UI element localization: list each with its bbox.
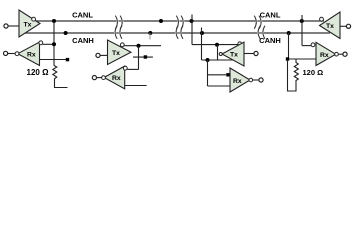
bubble Rx1 upper input [39, 41, 43, 45]
svg-text:120 Ω: 120 Ω [303, 68, 324, 77]
wire CANH bus segment 2 [121, 32, 175, 34]
bubble Tx3 upper output [238, 42, 242, 46]
wire Tx4 input [340, 25, 346, 27]
wire vertical CANL node3 [191, 15, 193, 45]
junction dot CANH node1 [64, 31, 68, 35]
junction dot on Tx3 lower wire [206, 58, 210, 62]
wire vertical to Rx3 inputs [207, 60, 209, 86]
wire CANH bus segment 1 [25, 32, 114, 34]
junction dot CANL node2 [159, 19, 163, 23]
terminal Rx4 output [343, 52, 347, 56]
junction dot Rx1 upper input on vertical [52, 42, 56, 46]
wire Rx2 lower input [125, 85, 147, 87]
svg-text:Tx: Tx [326, 23, 334, 30]
receiver Rx4 [316, 42, 336, 65]
wire Tx3 upper output [192, 44, 238, 46]
square stub node1 [66, 58, 69, 61]
wire vertical CANH node3 [201, 28, 203, 61]
square stub node3 [226, 73, 229, 76]
resistor R2 120 ohm zigzag [294, 59, 298, 87]
svg-text:120 Ω: 120 Ω [27, 68, 50, 77]
terminal Tx1 input [4, 24, 8, 28]
wire CANL between break arcs 1 [118, 20, 121, 22]
wire Rx2 output [97, 77, 102, 79]
wire Rx1 upper input [43, 43, 54, 45]
square stub node2 [144, 55, 147, 58]
svg-text:CANL: CANL [72, 10, 93, 19]
svg-text:Rx: Rx [233, 78, 242, 85]
wire CANH bus segment 3 [182, 32, 257, 34]
wire CANH between break arcs 1 [116, 32, 119, 34]
terminal Tx2 input [96, 53, 100, 57]
terminal Rx1 output [4, 51, 8, 55]
transmitter Tx2 [108, 40, 132, 65]
junction dot CANL node1 [52, 19, 56, 23]
bubble Rx2 upper input [123, 66, 127, 70]
terminal Rx2 output [92, 76, 96, 80]
terminal Rx3 output [259, 78, 263, 82]
terminal Tx3 input [254, 51, 258, 55]
receiver Rx1 [18, 42, 40, 66]
wire Tx2 upper output [124, 45, 161, 47]
svg-text:Rx: Rx [27, 51, 36, 58]
wire CANL between break arcs 3 [257, 20, 260, 22]
square stub node4 [286, 57, 289, 60]
break marks CANH left [115, 26, 117, 39]
wire Rx1 output [8, 53, 16, 55]
svg-text:CANH: CANH [259, 36, 281, 45]
break marks CANL left [115, 16, 265, 39]
break marks CANH middle [176, 26, 178, 39]
break marks CANH right [258, 26, 260, 39]
wire CANL bus segment 4 [262, 20, 324, 22]
svg-text:Rx: Rx [112, 75, 121, 82]
bubble Rx1 tip [15, 52, 19, 56]
svg-text:Rx: Rx [320, 52, 329, 59]
svg-text:CANL: CANL [260, 10, 281, 19]
wire Tx3 lower output [202, 59, 234, 61]
svg-text:CANH: CANH [72, 36, 94, 45]
wire Rx3 output [253, 79, 259, 81]
junction dot CANL node3 [190, 19, 194, 23]
transmitter Tx1 [19, 10, 40, 37]
bubble Tx1 upper output [32, 17, 36, 21]
bubble Rx2 tip [102, 76, 106, 80]
wire CANH between break arcs 3 [259, 32, 262, 34]
bubble Rx4 upper input [311, 43, 315, 47]
junction dot CANH node3 [200, 31, 204, 35]
junction dot CANH node2 [148, 31, 152, 35]
wire vertical CANL to resistor R1 [53, 21, 55, 66]
wire Rx4 lower input [289, 58, 316, 60]
wire Tx3 input [244, 53, 254, 55]
resistor R1 120 ohm zigzag [53, 66, 68, 88]
wire CANL between break arcs 2 [179, 20, 182, 22]
wire vertical node2 [138, 46, 140, 70]
wire CANH between break arcs 2 [177, 32, 180, 34]
receiver Rx3 [230, 68, 250, 92]
wire Rx1 lower input [40, 59, 67, 61]
wire Tx1 input [8, 25, 19, 27]
wire Rx4 upper input [302, 45, 311, 47]
wire CANL bus segment 1 [25, 21, 330, 33]
wire Rx2 upper input [127, 68, 138, 70]
svg-text:Tx: Tx [112, 50, 120, 57]
break marks CANL middle [176, 16, 178, 29]
junction dot on Tx2 output wire [137, 44, 141, 48]
wire CANH bus segment 4 [264, 32, 330, 34]
bubble Tx2 upper output [120, 43, 124, 47]
wire Rx4 output [338, 53, 342, 55]
wire Rx3 lower input [208, 85, 231, 87]
wire resistor R2 bottom loop [288, 61, 297, 91]
bubble Rx3 tip [249, 78, 253, 82]
wire Tx2 input [100, 54, 108, 56]
wire vertical from dot [217, 45, 219, 60]
svg-text:Tx: Tx [230, 52, 238, 59]
junction dot CANL node4 [300, 19, 304, 23]
transmitter Tx4 [320, 12, 341, 39]
wire Tx2 lower output [133, 56, 153, 58]
wire vertical CANL node4 [301, 15, 303, 46]
bubble Rx4 tip [335, 52, 339, 56]
wire Rx3 upper input [208, 74, 227, 76]
svg-text:Tx: Tx [24, 21, 32, 28]
bubble Tx3 tip [219, 53, 222, 56]
stub below CANH dot node2 [149, 33, 151, 40]
junction dot CANH node4 [287, 31, 291, 35]
terminal Tx4 input [346, 24, 350, 28]
break marks CANL right [254, 16, 256, 29]
receiver Rx2 [104, 66, 125, 89]
junction dot on Tx3 upper wire [215, 43, 219, 47]
wire CANL bus segment 3 [184, 20, 255, 22]
transmitter Tx3 [222, 42, 244, 66]
wire CANL bus segment 2 [123, 20, 177, 22]
bubble Tx4 upper output [320, 17, 324, 21]
wire vertical CANH node4 [288, 33, 290, 59]
